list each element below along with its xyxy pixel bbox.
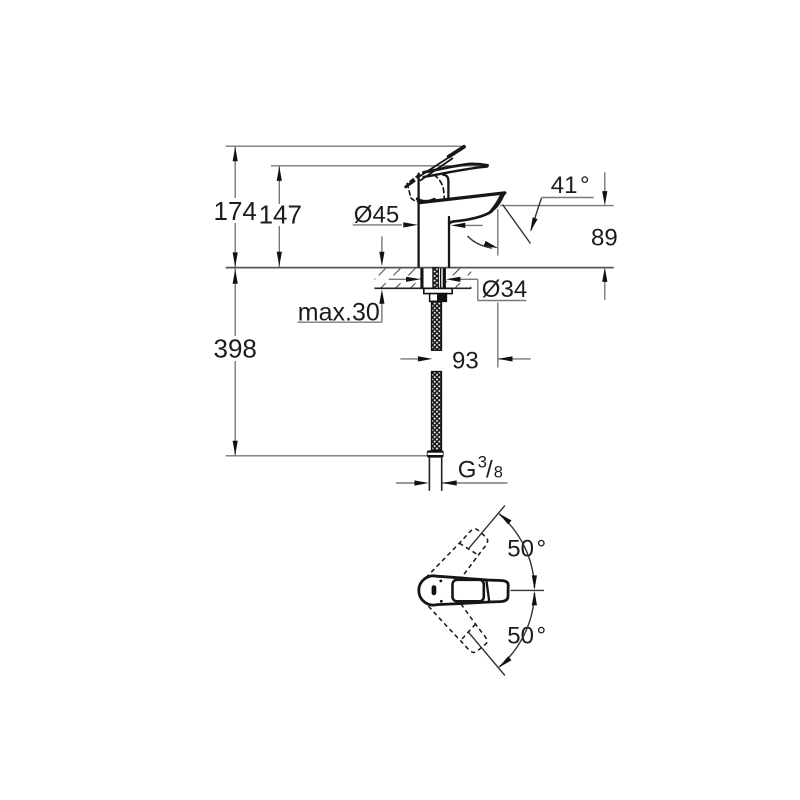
rod extra line (440, 268, 442, 289)
arrow 93 left (right) (418, 356, 433, 361)
arc arrow lower-at-center (532, 591, 537, 606)
arrow max30 top (down) (379, 252, 384, 267)
svg-text:8: 8 (494, 463, 503, 481)
41deg slope line from spout tip (503, 205, 531, 244)
O34 dim line left (389, 278, 408, 280)
svg-text:89: 89 (591, 225, 618, 252)
svg-text:G: G (458, 457, 477, 484)
O34 dim line right (459, 278, 478, 280)
aerator arrow line (464, 224, 483, 226)
lever blade top edge (424, 164, 488, 173)
398 bottom reference line (226, 455, 429, 457)
arrow O45 (right) (403, 222, 418, 227)
spout tip extension vertical (497, 209, 499, 256)
body left edge (417, 174, 419, 267)
G3/8 tube right wall (441, 458, 443, 491)
arrow 89 top (down) (602, 191, 607, 206)
spout top edge (420, 193, 505, 203)
handle black bar (432, 585, 437, 595)
arrow 398 top (up) (233, 269, 238, 284)
dim line 147 vertical (278, 166, 280, 204)
cartridge right edge with rounded top (443, 175, 448, 199)
hose end nut (427, 450, 444, 457)
braided hose lower segment (432, 372, 442, 451)
svg-text:41°: 41° (551, 172, 590, 199)
dashed handle rotated up 50deg (426, 524, 493, 596)
handle dot bottom (440, 600, 443, 603)
arc arrow lower-at-line (497, 656, 511, 669)
O34 dimension corridor over hatch (375, 275, 419, 283)
extension line 147 level (271, 165, 487, 167)
svg-text:Ø45: Ø45 (354, 202, 399, 229)
arrow 174 top (up) (233, 147, 238, 162)
body right edge lower (448, 217, 450, 267)
centerline (511, 589, 545, 591)
svg-text:147: 147 (259, 200, 302, 230)
svg-text:50°: 50° (507, 622, 546, 649)
arrow 93 right (left) (498, 356, 513, 361)
washer under counter (424, 288, 452, 293)
countertop bottom line (374, 287, 471, 289)
svg-text:174: 174 (214, 196, 257, 226)
arc arrow upper-at-line (497, 511, 511, 524)
lever rise thin line B (420, 158, 452, 180)
41deg underline (541, 197, 594, 199)
dashed rhombus top-left edge (407, 174, 419, 183)
93 dim lines (400, 358, 418, 360)
loop lower-left corner stroke (406, 181, 414, 187)
svg-text:398: 398 (214, 334, 257, 364)
lever rise thin line A (417, 156, 451, 178)
dim line 398 vertical (234, 268, 236, 336)
arrow G38 left (right) (414, 480, 429, 485)
shank right wall (443, 268, 446, 288)
upper 50deg arc (499, 514, 534, 588)
shank left wall (420, 268, 423, 288)
extension line top (174 level) (226, 145, 464, 147)
arrow G38 right (left) (442, 480, 457, 485)
50deg line lower (468, 632, 505, 676)
handle dot top (439, 580, 442, 583)
50deg line upper (468, 506, 505, 550)
mounting plane long line (226, 267, 614, 269)
hatch left of shank (375, 269, 421, 289)
41deg curved leader (531, 198, 541, 230)
handle inner recess (453, 580, 484, 602)
svg-text:/: / (486, 457, 493, 484)
max.30 leader: underline and vertical (298, 321, 382, 323)
arrow 147 bottom (down) (277, 252, 282, 267)
svg-text:50°: 50° (507, 536, 546, 563)
arrow 147 top (up) (277, 166, 282, 181)
handle divider line (486, 580, 489, 602)
hatch right of shank (446, 269, 471, 289)
O45 underline (353, 224, 402, 226)
lever blade bottom edge (424, 167, 488, 177)
arrow O34 left (right) (406, 277, 421, 282)
svg-text:Ø34: Ø34 (482, 276, 527, 303)
swivel curved arrow (468, 236, 493, 248)
spout tip thick wedge (487, 192, 507, 214)
arc arrow upper-at-center (532, 575, 537, 590)
dashed rhombus bottom edge (411, 198, 422, 202)
dashed rhombus left edge (407, 184, 411, 199)
arrow 41deg leader (528, 217, 538, 232)
lever tip thick stroke (449, 147, 464, 157)
dim line 174 vertical (234, 146, 236, 198)
arrow max30 bottom (up) (379, 289, 384, 304)
lower 50deg arc (499, 593, 534, 667)
G3/8 dim lines (396, 482, 415, 484)
loop bottom junction stroke (417, 199, 434, 202)
solid handle outline (419, 576, 508, 605)
braided hose upper segment (432, 301, 442, 350)
threaded rod through counter (433, 268, 439, 289)
O34 label bracket (477, 279, 479, 300)
G3/8 tube left wall (429, 458, 431, 491)
svg-text:max.30: max.30 (298, 298, 380, 326)
mounting nut (430, 294, 447, 302)
arrow 174 bottom (down) (233, 252, 238, 267)
svg-text:93: 93 (452, 347, 479, 374)
spout underside curve (449, 212, 491, 224)
arrow 398 bottom (down) (233, 441, 238, 456)
89 dim verticals (604, 172, 606, 192)
arrow swivel (right) (484, 241, 499, 251)
dashed handle rotated down 50deg (426, 585, 493, 657)
arrow 89 bottom (up) (602, 267, 607, 282)
arrow O34 right (left) (446, 277, 461, 282)
hidden edge dashed (loop inner) (434, 175, 444, 199)
41/89 horizontal reference line at spout level (500, 205, 614, 207)
arrow aerator (left) (451, 223, 466, 228)
